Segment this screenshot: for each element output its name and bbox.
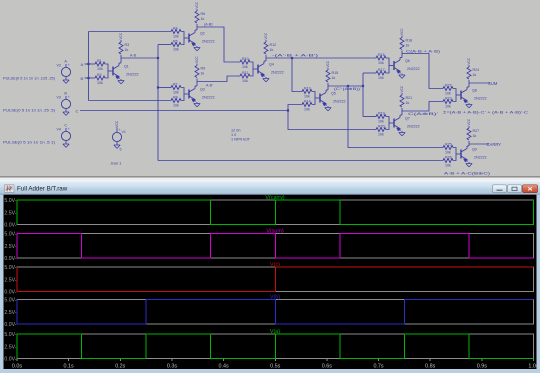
- time axis: [16, 359, 18, 362]
- svg-text:A: A: [81, 62, 84, 67]
- svg-text:R3: R3: [125, 43, 130, 47]
- svg-text:R9: R9: [201, 67, 206, 71]
- svg-text:.tran 1: .tran 1: [110, 161, 122, 166]
- svg-text:R16: R16: [378, 53, 385, 57]
- svg-text:1k: 1k: [270, 48, 274, 52]
- VCC: [401, 36, 403, 38]
- svg-text:2N2222: 2N2222: [407, 67, 420, 71]
- ground: [196, 102, 198, 104]
- svg-text:1k: 1k: [125, 48, 129, 52]
- ground: [120, 79, 122, 81]
- svg-text:2N2222: 2N2222: [333, 100, 346, 104]
- svg-text:R27: R27: [473, 129, 480, 133]
- svg-text:R8: R8: [173, 95, 178, 99]
- resistor R3 pull-up: [119, 42, 123, 54]
- svg-text:0.0s: 0.0s: [12, 364, 22, 370]
- wire base join: [386, 58, 389, 73]
- wire G2 output: [197, 27, 240, 62]
- trace V(b): [17, 300, 534, 325]
- svg-text:1k: 1k: [201, 72, 205, 76]
- wave pane V(carry): [17, 200, 534, 225]
- VCC: [196, 64, 198, 66]
- svg-text:R11: R11: [242, 71, 248, 75]
- svg-text:B: B: [81, 76, 84, 81]
- svg-text:PULSE(0 5 1n 1n 1n .125 .25): PULSE(0 5 1n 1n 1n .125 .25): [3, 77, 55, 81]
- wire base join: [453, 89, 456, 102]
- svg-text:10k: 10k: [378, 120, 384, 124]
- resistor R2: [95, 76, 105, 80]
- svg-text:2N2222: 2N2222: [202, 96, 215, 100]
- wire A to G2 top: [89, 31, 172, 33]
- wave pane V(a): [17, 334, 534, 359]
- trace V(c): [17, 267, 534, 292]
- wire G6 output: [402, 54, 443, 89]
- svg-text:0.7s: 0.7s: [373, 364, 383, 370]
- wire G4 output A xor B: [266, 57, 376, 59]
- voltage source V4: [61, 131, 70, 140]
- resistor R12 pull-up: [264, 42, 268, 54]
- svg-text:Q4: Q4: [269, 63, 274, 67]
- wire G5 output: [328, 85, 363, 87]
- wire G1 output (A nand B): [121, 57, 158, 59]
- svg-text:+: +: [119, 128, 121, 132]
- svg-text:R24: R24: [473, 68, 480, 72]
- resistor R21 pull-up: [400, 95, 404, 107]
- svg-text:10k: 10k: [173, 48, 179, 52]
- wire G3 output: [197, 76, 240, 82]
- resistor R16: [376, 56, 386, 60]
- svg-text:10k: 10k: [242, 79, 248, 83]
- svg-text:R25: R25: [445, 142, 452, 146]
- svg-text:+: +: [68, 63, 70, 67]
- svg-text:10k: 10k: [445, 164, 451, 168]
- transistor Q2 2N2222: [188, 34, 190, 43]
- svg-text:PULSE(0 5 1n 1n 1n .5 1): PULSE(0 5 1n 1n 1n .5 1): [3, 141, 55, 145]
- wire C up to G5: [288, 105, 302, 111]
- svg-text:10k: 10k: [242, 65, 248, 69]
- resistor R6 pull-up: [195, 11, 199, 23]
- svg-text:5.0V-: 5.0V-: [4, 198, 16, 204]
- resistor R4: [171, 30, 181, 34]
- svg-text:1k: 1k: [406, 101, 410, 105]
- svg-text:1 NPN BJT: 1 NPN BJT: [231, 138, 251, 142]
- svg-text:C: C: [64, 124, 67, 128]
- svg-text:2N2222: 2N2222: [202, 40, 215, 44]
- svg-text:2N2222: 2N2222: [407, 125, 420, 129]
- svg-text:VCC: VCC: [400, 28, 404, 35]
- wire base join: [453, 148, 456, 161]
- svg-text:VCC: VCC: [467, 57, 471, 64]
- svg-text:2.5V-: 2.5V-: [4, 310, 16, 316]
- svg-text:R2: R2: [97, 73, 102, 77]
- resistor R26: [443, 159, 453, 163]
- junction dots: [87, 63, 89, 65]
- svg-text:1k: 1k: [406, 44, 410, 48]
- svg-text:10k: 10k: [445, 105, 451, 109]
- svg-text:1k: 1k: [332, 76, 336, 80]
- svg-text:A: A: [64, 60, 67, 64]
- svg-text:C(A·B + A·B): C(A·B + A·B): [406, 49, 440, 53]
- svg-text:Q8: Q8: [472, 89, 477, 93]
- svg-text:VCC: VCC: [195, 56, 199, 63]
- VCC: [196, 9, 198, 11]
- svg-text:5.0V-: 5.0V-: [4, 232, 16, 238]
- ground: [63, 80, 69, 83]
- resistor R25: [443, 146, 453, 150]
- resistor R19: [376, 115, 386, 119]
- svg-text:Q7: Q7: [405, 117, 410, 121]
- svg-text:R19: R19: [378, 111, 385, 115]
- svg-text:2N2222: 2N2222: [474, 97, 487, 101]
- wire base join: [312, 92, 315, 105]
- svg-text:2N2222: 2N2222: [474, 156, 487, 160]
- wave pane V(sum): [17, 234, 534, 259]
- trace V(carry): [17, 200, 534, 225]
- svg-text:10k: 10k: [304, 95, 310, 99]
- wire base join: [386, 117, 389, 130]
- svg-text:A·B: A·B: [130, 54, 137, 58]
- wire G7 output: [402, 102, 443, 112]
- transistor Q9 2N2222: [460, 150, 462, 159]
- svg-text:R22: R22: [445, 83, 452, 87]
- svg-text:0.2s: 0.2s: [115, 364, 125, 370]
- svg-text:10k: 10k: [173, 35, 179, 39]
- svg-text:2.5V-: 2.5V-: [4, 277, 16, 283]
- ground: [401, 131, 403, 133]
- svg-text:10k: 10k: [378, 133, 384, 137]
- svg-text:Q1: Q1: [124, 65, 129, 69]
- trace V(sum): [17, 234, 534, 259]
- wire G1out to G9 (long bottom): [158, 160, 443, 162]
- wire CARRY output: [469, 143, 489, 145]
- svg-text:5.0V-: 5.0V-: [4, 265, 16, 271]
- svg-text:A·B': A·B': [206, 84, 213, 88]
- svg-text:PULSE(0 5 1n 1n 1n .25 .5): PULSE(0 5 1n 1n 1n .25 .5): [3, 109, 55, 113]
- resistor R20: [376, 128, 386, 132]
- svg-text:2N2222: 2N2222: [126, 73, 139, 77]
- resistor R13: [302, 90, 312, 94]
- svg-text:10k: 10k: [445, 151, 451, 155]
- schematic background: [0, 0, 540, 178]
- transistor Q8 2N2222: [460, 91, 462, 100]
- svg-text:R7: R7: [173, 82, 178, 86]
- svg-text:1k: 1k: [473, 134, 477, 138]
- resistor R10: [240, 60, 250, 64]
- svg-text:2N2222: 2N2222: [271, 71, 284, 75]
- svg-text:Q5: Q5: [331, 92, 336, 96]
- resistor R5: [171, 43, 181, 47]
- VCC: [265, 40, 267, 42]
- wire G5out to G9: [348, 86, 443, 148]
- wire base join: [181, 32, 184, 45]
- svg-text:0.0V-: 0.0V-: [4, 322, 16, 328]
- resistor R18 pull-up: [400, 38, 404, 50]
- ground: [265, 77, 267, 79]
- svg-text:2.5V-: 2.5V-: [4, 344, 16, 350]
- VCC: [401, 93, 403, 95]
- resistor R22: [443, 87, 453, 91]
- svg-text:R13: R13: [304, 86, 311, 90]
- svg-text:+: +: [68, 95, 70, 99]
- svg-text:1.0s: 1.0s: [528, 364, 538, 370]
- window buttons min/max/close: [493, 185, 538, 193]
- svg-text:10k: 10k: [173, 91, 179, 95]
- resistor R1: [95, 62, 105, 66]
- svg-text:Q6: Q6: [405, 59, 410, 63]
- trace V(a): [17, 334, 534, 359]
- svg-text:1 0: 1 0: [231, 133, 236, 137]
- svg-text:(A·B)': (A·B)': [204, 23, 213, 27]
- wave pane V(b): [17, 300, 534, 325]
- svg-text:5: 5: [120, 148, 122, 152]
- wire xor down to G5: [292, 58, 302, 92]
- svg-text:10k: 10k: [97, 67, 103, 71]
- svg-text:CARRY: CARRY: [487, 142, 502, 147]
- voltage source V3: [61, 99, 70, 108]
- svg-text:R17: R17: [378, 68, 385, 72]
- transistor Q3 2N2222: [188, 90, 190, 99]
- waveform client area: [4, 195, 537, 369]
- svg-text:0.8s: 0.8s: [425, 364, 435, 370]
- svg-text:0.9s: 0.9s: [477, 364, 487, 370]
- voltage source V1 (VCC 5V): [112, 132, 121, 141]
- svg-text:VCC: VCC: [467, 118, 471, 125]
- wire B to G3 bottom: [89, 100, 172, 102]
- resistor R14: [302, 103, 312, 107]
- svg-text:0.6s: 0.6s: [322, 364, 332, 370]
- ground: [63, 112, 69, 115]
- svg-text:-(A'·B + A·B'): -(A'·B + A·B'): [272, 53, 318, 57]
- svg-text:V4: V4: [57, 128, 61, 132]
- svg-text:R5: R5: [173, 39, 178, 43]
- svg-text:R4: R4: [173, 26, 178, 30]
- svg-text:V2: V2: [57, 64, 61, 68]
- svg-text:5.0V-: 5.0V-: [4, 332, 16, 338]
- wave pane V(c): [17, 267, 534, 292]
- svg-text:12 0n: 12 0n: [231, 129, 241, 133]
- svg-text:R21: R21: [406, 96, 413, 100]
- svg-text:VCC: VCC: [400, 85, 404, 92]
- VCC: [120, 40, 122, 42]
- svg-text:R10: R10: [242, 57, 249, 61]
- ground: [63, 144, 69, 147]
- svg-text:Q9: Q9: [472, 148, 477, 152]
- resistor R9 pull-up: [195, 66, 199, 78]
- transistor Q5 2N2222: [319, 94, 321, 103]
- svg-text:VCC: VCC: [115, 120, 119, 127]
- svg-text:R1: R1: [97, 59, 102, 63]
- resistor R27 pull-up: [467, 128, 471, 140]
- ground: [327, 106, 329, 108]
- ground: [114, 145, 120, 148]
- svg-text:VCC: VCC: [326, 60, 330, 67]
- ground: [468, 162, 470, 164]
- window icon: [5, 185, 15, 193]
- svg-text:B: B: [64, 92, 67, 96]
- wire G1out vertical distribution x=158: [157, 45, 159, 161]
- resistor R23: [443, 100, 453, 104]
- resistor R17: [376, 71, 386, 75]
- svg-text:VCC: VCC: [195, 1, 199, 8]
- svg-text:R20: R20: [378, 124, 385, 128]
- resistor R7: [171, 86, 181, 90]
- svg-text:0.5s: 0.5s: [270, 364, 280, 370]
- window borders: [0, 195, 4, 373]
- resistor R15 pull-up: [326, 70, 330, 82]
- svg-text:0.3s: 0.3s: [167, 364, 177, 370]
- svg-text:Full Adder B/T.raw: Full Adder B/T.raw: [17, 186, 68, 193]
- svg-text:R23: R23: [445, 96, 452, 100]
- ground: [196, 46, 198, 48]
- svg-text:2.5V-: 2.5V-: [4, 210, 16, 216]
- svg-text:10k: 10k: [378, 61, 384, 65]
- wire base join: [250, 62, 253, 76]
- transistor Q4 2N2222: [257, 65, 259, 74]
- svg-text:R15: R15: [332, 71, 339, 75]
- wire G5out vertical to G6/G7: [362, 73, 364, 117]
- VCC: [468, 65, 470, 67]
- svg-text:0.0V-: 0.0V-: [4, 256, 16, 262]
- VCC: [327, 68, 329, 70]
- resistor R24 pull-up: [467, 67, 471, 79]
- svg-text:Q3: Q3: [200, 88, 205, 92]
- svg-text:R18: R18: [406, 39, 413, 43]
- svg-text:0.1s: 0.1s: [64, 364, 74, 370]
- transistor Q6 2N2222: [393, 61, 395, 70]
- svg-text:10k: 10k: [445, 92, 451, 96]
- svg-text:R12: R12: [270, 43, 277, 47]
- svg-text:R6: R6: [201, 12, 206, 16]
- svg-text:V1: V1: [122, 130, 126, 134]
- svg-text:0.4s: 0.4s: [218, 364, 228, 370]
- svg-text:2.5V-: 2.5V-: [4, 244, 16, 250]
- svg-text:10k: 10k: [378, 76, 384, 80]
- resistor R8: [171, 99, 181, 103]
- svg-text:Σ=(A·B + A·B)·C' + (A·B + A·B): Σ=(A·B + A·B)·C' + (A·B + A·B)'·C: [443, 111, 529, 115]
- svg-text:1k: 1k: [473, 73, 477, 77]
- svg-text:C: C: [76, 108, 79, 113]
- transistor Q7 2N2222: [393, 119, 395, 128]
- VCC: [468, 126, 470, 128]
- svg-text:VCC: VCC: [119, 32, 123, 39]
- svg-text:+: +: [68, 127, 70, 131]
- wire SUM output: [469, 82, 490, 84]
- svg-text:5.0V-: 5.0V-: [4, 298, 16, 304]
- wire C down to G7: [288, 111, 376, 130]
- wire base join: [181, 88, 184, 101]
- svg-text:R14: R14: [304, 99, 311, 103]
- divider between windows: [0, 176, 540, 178]
- voltage source V2: [61, 67, 70, 76]
- svg-text:VCC: VCC: [264, 32, 268, 39]
- svg-text:C(A⊕B)': C(A⊕B)': [408, 112, 439, 116]
- svg-text:0.0V-: 0.0V-: [4, 357, 16, 363]
- svg-text:1k: 1k: [201, 17, 205, 21]
- svg-text:0.0V-: 0.0V-: [4, 223, 16, 229]
- svg-text:V3: V3: [57, 96, 61, 100]
- svg-text:0.0V-: 0.0V-: [4, 290, 16, 296]
- ground: [401, 74, 403, 76]
- svg-text:10k: 10k: [173, 104, 179, 108]
- transistor Q1 2N2222: [112, 67, 114, 76]
- ground: [468, 103, 470, 105]
- svg-text:Q2: Q2: [200, 32, 205, 36]
- wire vertical A/B bus x=88.5: [88, 32, 90, 101]
- svg-text:10k: 10k: [97, 81, 103, 85]
- svg-text:SUM: SUM: [488, 81, 498, 86]
- svg-text:A·B + A·C(B⊕C): A·B + A·C(B⊕C): [444, 172, 490, 176]
- svg-text:10k: 10k: [304, 108, 310, 112]
- resistor R11: [240, 74, 250, 78]
- svg-text:R26: R26: [445, 155, 452, 159]
- wire base join: [105, 64, 108, 78]
